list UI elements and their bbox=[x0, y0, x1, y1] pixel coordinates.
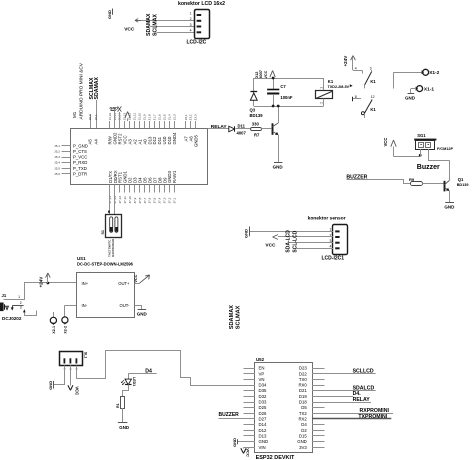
svg-text:J3,2: J3,2 bbox=[189, 114, 193, 120]
svg-text:SG1: SG1 bbox=[417, 133, 426, 138]
svg-text:4007: 4007 bbox=[237, 130, 247, 135]
net RXPROMINI wire + label (TX2) bbox=[312, 408, 393, 414]
pin A5 (top) bbox=[88, 114, 93, 145]
svg-text:D33: D33 bbox=[259, 400, 267, 405]
svg-text:BUZZER: BUZZER bbox=[219, 412, 240, 418]
power VCC arrow sensor pin2 bbox=[265, 235, 333, 249]
wire lower rail (coil to D12/C7/Q3) bbox=[254, 106, 324, 108]
svg-text:8: 8 bbox=[355, 95, 357, 99]
no-connect X mark above RST2 pin bbox=[118, 106, 122, 121]
ground at OUT- bbox=[135, 306, 148, 317]
svg-text:J1,6: J1,6 bbox=[158, 114, 162, 120]
svg-text:D32: D32 bbox=[259, 394, 267, 399]
mcu U52 ESP32 DEVKIT (body) bbox=[255, 357, 313, 460]
net SDALCD wire + rotated label bbox=[286, 230, 333, 253]
svg-text:GND: GND bbox=[444, 204, 455, 209]
svg-text:GND: GND bbox=[48, 381, 53, 390]
wire Arduino D0/RX to S1 bbox=[114, 193, 116, 215]
svg-text:A4: A4 bbox=[94, 139, 99, 145]
svg-text:12: 12 bbox=[371, 95, 375, 99]
svg-text:J7,13: J7,13 bbox=[113, 196, 117, 204]
svg-text:GND4: GND4 bbox=[172, 132, 177, 145]
svg-text:BD139: BD139 bbox=[457, 183, 469, 187]
junction node at Q3 collector bbox=[277, 105, 280, 108]
svg-text:LCD-I2C1: LCD-I2C1 bbox=[322, 256, 345, 262]
svg-text:D2: D2 bbox=[301, 428, 307, 433]
svg-text:DC-DC-STEP-DOWN-LM2596: DC-DC-STEP-DOWN-LM2596 bbox=[77, 261, 134, 266]
svg-text:J5,3: J5,3 bbox=[54, 155, 60, 159]
svg-text:TXD2-2M-5V: TXD2-2M-5V bbox=[328, 85, 350, 89]
terminal X2-1 bbox=[50, 312, 56, 334]
svg-text:D22: D22 bbox=[299, 371, 307, 376]
svg-text:GND: GND bbox=[405, 96, 416, 101]
svg-text:C7: C7 bbox=[280, 84, 286, 89]
svg-text:J1,10: J1,10 bbox=[138, 112, 142, 120]
buzzer SG1 F/CM12P bbox=[414, 133, 453, 160]
svg-text:K1: K1 bbox=[370, 107, 376, 112]
svg-text:Buzzer: Buzzer bbox=[417, 164, 440, 171]
wire pin2 VCC to LCD-I2C bbox=[141, 20, 194, 22]
net SCLLCD wire + rotated label bbox=[292, 230, 333, 252]
power VCC arrow at OUT+ bbox=[134, 274, 149, 283]
svg-text:1: 1 bbox=[319, 87, 323, 89]
diode D12 1N4007 (freewheel) bbox=[250, 70, 263, 106]
svg-text:2: 2 bbox=[20, 301, 22, 305]
net SDAMAX rotated label (A4 wire) bbox=[94, 76, 100, 121]
net BUZZER wire + label (to D27) bbox=[219, 412, 244, 419]
svg-text:VCC: VCC bbox=[383, 138, 388, 147]
svg-text:SDAMAX: SDAMAX bbox=[146, 13, 152, 36]
power VCC arrow (buzzer) bbox=[383, 138, 396, 157]
junction node buzzer pin1 bbox=[419, 154, 422, 157]
svg-text:D19: D19 bbox=[299, 394, 307, 399]
svg-text:GND: GND bbox=[107, 10, 112, 19]
wire jack pin1 to +24V rail bbox=[4, 283, 77, 300]
svg-text:D15: D15 bbox=[299, 433, 307, 438]
power VCC arrow (relay rail) bbox=[264, 70, 275, 78]
junction mark bbox=[108, 211, 110, 213]
power VCC arrow above VCC pin bbox=[125, 112, 130, 121]
svg-text:GND: GND bbox=[243, 229, 248, 238]
svg-text:D21: D21 bbox=[299, 388, 307, 393]
svg-text:J7,6: J7,6 bbox=[148, 197, 152, 203]
svg-text:VCC: VCC bbox=[265, 243, 276, 249]
svg-text:D12: D12 bbox=[259, 428, 267, 433]
ground below Q1 bbox=[444, 203, 455, 210]
net RELAY wire + label (D18) bbox=[312, 397, 371, 403]
regulator U51 DC-DC-STEP-DOWN-LM2596 bbox=[77, 256, 135, 318]
svg-text:J7,4: J7,4 bbox=[158, 197, 162, 203]
net D4 wire + label (D19) bbox=[312, 391, 361, 397]
power +24V arrow (contacts) bbox=[343, 55, 355, 71]
connector LCD-I2C1 (konektor sensor) bbox=[308, 216, 348, 262]
svg-text:ESP32 DEVKIT: ESP32 DEVKIT bbox=[256, 455, 295, 460]
svg-text:D27: D27 bbox=[259, 416, 267, 421]
svg-text:J5,4: J5,4 bbox=[54, 161, 60, 165]
resistor R7 330 bbox=[251, 121, 272, 137]
ESP32 right pin stubs bbox=[312, 369, 325, 448]
svg-text:A5: A5 bbox=[88, 139, 93, 145]
svg-text:LED1: LED1 bbox=[132, 377, 136, 386]
svg-text:konektor LCD 16x2: konektor LCD 16x2 bbox=[178, 1, 225, 7]
svg-text:Q1: Q1 bbox=[458, 177, 464, 182]
svg-text:SL1: SL1 bbox=[84, 352, 88, 359]
wire X2-2 to U51 IN- bbox=[65, 305, 77, 307]
svg-text:GND: GND bbox=[232, 438, 237, 447]
svg-text:D4: D4 bbox=[301, 422, 307, 427]
svg-text:J5,6: J5,6 bbox=[54, 172, 60, 176]
svg-text:OUT-: OUT- bbox=[119, 303, 130, 308]
svg-text:P_CTS: P_CTS bbox=[73, 149, 87, 154]
power VCC arrow down SL1 pin2 bbox=[68, 365, 80, 395]
svg-text:3V3: 3V3 bbox=[299, 445, 307, 450]
svg-text:VN: VN bbox=[259, 377, 265, 382]
switch S1 (tact switch) bbox=[101, 215, 122, 258]
net SDAMAX rotated label (floating) bbox=[229, 305, 235, 330]
svg-text:SDAMAX: SDAMAX bbox=[94, 76, 100, 99]
mcu M1 ARDUINO PRO MINI (body) bbox=[71, 62, 208, 184]
relay contact K1 (lower) bbox=[353, 95, 377, 118]
top pin row R/W..D10 bbox=[108, 112, 178, 144]
svg-text:GND: GND bbox=[259, 439, 269, 444]
svg-text:D18: D18 bbox=[299, 400, 307, 405]
svg-text:D5: D5 bbox=[301, 405, 307, 410]
wire LED cathode to R1 bbox=[123, 385, 129, 397]
svg-text:LCD-I2C: LCD-I2C bbox=[187, 40, 207, 46]
wire buzzer pin2 to Q1 collector bbox=[428, 160, 449, 162]
svg-text:J1: J1 bbox=[2, 293, 7, 298]
svg-text:DCJ0202: DCJ0202 bbox=[2, 316, 22, 321]
svg-text:+24V: +24V bbox=[343, 55, 348, 67]
svg-text:P_RXD: P_RXD bbox=[73, 160, 87, 165]
relay coil K1 TXD2-2M-5V bbox=[316, 79, 350, 104]
svg-text:3: 3 bbox=[370, 66, 372, 70]
svg-text:RADISONAR: RADISONAR bbox=[111, 238, 115, 257]
svg-text:J5,1: J5,1 bbox=[54, 144, 60, 148]
svg-text:J7,14: J7,14 bbox=[108, 196, 112, 204]
relay contact K1 (upper) bbox=[350, 66, 377, 88]
terminal X1-1 with ground bbox=[405, 86, 434, 101]
svg-text:SDAMAX: SDAMAX bbox=[229, 305, 235, 330]
net RELAY wire from M1 bbox=[208, 124, 229, 130]
net BUZZER wire + label bbox=[346, 175, 410, 184]
svg-text:S1: S1 bbox=[101, 230, 105, 234]
ground GND (rotated, top-left) bbox=[107, 9, 112, 20]
svg-text:R1: R1 bbox=[116, 403, 120, 408]
svg-text:U52: U52 bbox=[256, 357, 265, 362]
svg-text:J1,9: J1,9 bbox=[143, 114, 147, 120]
svg-text:3: 3 bbox=[20, 306, 22, 310]
ground GND (rotated) SL1 pin1 bbox=[48, 366, 65, 390]
net D4 wire + label bbox=[128, 369, 157, 380]
wire VCC to buzzer pin 1 bbox=[394, 156, 421, 158]
svg-text:J3,1: J3,1 bbox=[184, 114, 188, 120]
ground symbol above GND2 pin (inverted) bbox=[110, 107, 119, 121]
svg-text:K1: K1 bbox=[370, 79, 376, 84]
bottom pin row D1/TX..D9 bbox=[108, 170, 177, 203]
resistor R1 bbox=[116, 397, 124, 409]
svg-text:J7,8: J7,8 bbox=[138, 197, 142, 203]
ground below Q3 bbox=[273, 163, 284, 170]
svg-text:4007: 4007 bbox=[259, 70, 263, 78]
svg-text:GND: GND bbox=[273, 165, 284, 170]
svg-text:J7,10: J7,10 bbox=[128, 196, 132, 204]
svg-text:J2,1: J2,1 bbox=[94, 114, 98, 120]
svg-text:D25: D25 bbox=[259, 405, 267, 410]
svg-text:D14: D14 bbox=[259, 422, 267, 427]
svg-text:2: 2 bbox=[319, 102, 323, 104]
svg-text:TX2: TX2 bbox=[299, 411, 307, 416]
svg-text:X2-1: X2-1 bbox=[52, 326, 56, 334]
svg-text:D35: D35 bbox=[259, 388, 267, 393]
svg-text:J5,5: J5,5 bbox=[54, 166, 60, 170]
svg-text:P_GND: P_GND bbox=[73, 144, 88, 149]
svg-text:P_TXD: P_TXD bbox=[73, 166, 87, 171]
svg-text:EN: EN bbox=[259, 366, 265, 371]
connector SL1 (3-pin) bbox=[60, 352, 88, 370]
svg-text:VCC: VCC bbox=[134, 274, 138, 282]
net SCLMAX wire + rotated label bbox=[153, 14, 195, 36]
LED D4 LED1 bbox=[121, 377, 136, 386]
svg-text:J1,5: J1,5 bbox=[162, 114, 166, 120]
svg-text:SCLLCD: SCLLCD bbox=[353, 369, 374, 375]
capacitor C7 100nF bbox=[267, 78, 293, 106]
svg-text:F/CM12P: F/CM12P bbox=[437, 147, 454, 151]
svg-text:J5,2: J5,2 bbox=[54, 150, 60, 154]
svg-text:BD139: BD139 bbox=[250, 113, 264, 118]
svg-text:GND: GND bbox=[297, 439, 307, 444]
power VCC arrow down at ESP32 VIN pin bbox=[241, 447, 251, 457]
svg-text:D11: D11 bbox=[238, 123, 246, 128]
net SDALCD wire + label (D21) bbox=[312, 386, 376, 392]
ground below R1 bbox=[118, 408, 129, 430]
svg-text:VCC: VCC bbox=[245, 448, 250, 457]
top-right pins A7 A6 GND5 bbox=[184, 114, 199, 147]
svg-text:J1,4: J1,4 bbox=[167, 114, 171, 120]
svg-text:J1,16: J1,16 bbox=[108, 112, 112, 120]
junction node at C7 bottom bbox=[272, 105, 275, 108]
svg-text:VCC: VCC bbox=[124, 27, 135, 33]
svg-text:RAW1: RAW1 bbox=[172, 170, 177, 183]
net TXPROMINI wire + label (RX2) bbox=[312, 414, 391, 420]
svg-text:X2-2: X2-2 bbox=[64, 326, 68, 334]
connector LCD-I2C (4-pin header) bbox=[178, 1, 225, 45]
svg-text:J7,1: J7,1 bbox=[172, 197, 176, 203]
svg-text:K1: K1 bbox=[328, 79, 334, 84]
svg-text:J3,3: J3,3 bbox=[194, 114, 198, 120]
diode D11 1N4007 bbox=[229, 123, 250, 135]
svg-text:4: 4 bbox=[190, 29, 192, 33]
junction node at C7 top bbox=[272, 77, 275, 80]
svg-text:3: 3 bbox=[190, 23, 192, 27]
wire jack pin3 bracket bbox=[23, 310, 37, 316]
svg-text:RX0: RX0 bbox=[298, 383, 307, 388]
svg-text:IN+: IN+ bbox=[82, 281, 89, 286]
svg-text:RELAY: RELAY bbox=[353, 397, 371, 403]
svg-text:X1-1: X1-1 bbox=[424, 87, 434, 93]
svg-text:2: 2 bbox=[190, 17, 192, 21]
svg-text:J7,5: J7,5 bbox=[153, 197, 157, 203]
svg-text:OUT+: OUT+ bbox=[118, 281, 130, 286]
ground GND (rotated) at ESP32 GND pin bbox=[232, 438, 244, 447]
svg-text:D26: D26 bbox=[259, 411, 267, 416]
svg-text:SDA-LCD: SDA-LCD bbox=[286, 230, 292, 253]
svg-text:RX2: RX2 bbox=[298, 416, 307, 421]
pin A4 (top) bbox=[94, 114, 99, 144]
svg-text:P_DTR: P_DTR bbox=[73, 171, 87, 176]
svg-text:1: 1 bbox=[18, 295, 20, 299]
svg-text:GND: GND bbox=[119, 425, 129, 430]
net SCLMAX rotated label (A5 wire) bbox=[89, 77, 95, 99]
svg-text:1: 1 bbox=[190, 11, 192, 15]
svg-text:X1-2: X1-2 bbox=[429, 70, 439, 76]
svg-text:J1,3: J1,3 bbox=[172, 114, 176, 120]
svg-text:J7,2: J7,2 bbox=[168, 197, 172, 203]
left pins P_GND..P_DTR bbox=[54, 144, 88, 177]
svg-text:D23: D23 bbox=[299, 366, 307, 371]
power +24V flag on rail bbox=[39, 273, 51, 288]
net SDAMAX wire + rotated label bbox=[146, 13, 194, 36]
svg-text:M1: M1 bbox=[72, 111, 77, 118]
wire VCC rail to relay coil bbox=[254, 78, 324, 80]
svg-text:VP: VP bbox=[259, 371, 265, 376]
ground GND (rotated) sensor pin1 bbox=[243, 227, 333, 239]
svg-text:GND: GND bbox=[137, 311, 148, 316]
svg-text:330: 330 bbox=[252, 121, 260, 126]
svg-text:VCC: VCC bbox=[264, 70, 268, 78]
svg-text:J7,12: J7,12 bbox=[118, 196, 122, 204]
svg-text:GND5: GND5 bbox=[193, 134, 198, 147]
terminal X1-2 bbox=[393, 69, 439, 88]
connector J1 DCJ0202 (DC jack) bbox=[0, 293, 24, 321]
power VCC arrow (LCD harness) bbox=[124, 19, 141, 33]
svg-text:J1,8: J1,8 bbox=[148, 114, 152, 120]
svg-text:SCLMAX: SCLMAX bbox=[236, 305, 242, 329]
svg-text:IN-: IN- bbox=[82, 303, 88, 308]
transistor Q1 BD139 (NPN) bbox=[445, 160, 469, 202]
svg-text:4: 4 bbox=[355, 67, 357, 71]
terminal X2-2 bbox=[62, 305, 68, 333]
svg-text:D13: D13 bbox=[259, 433, 267, 438]
svg-text:+24V: +24V bbox=[39, 276, 44, 288]
svg-text:P_VCC: P_VCC bbox=[73, 155, 87, 160]
net SCLLCD wire + label (D22) bbox=[312, 369, 376, 375]
wire Arduino D1/TX to S1 bbox=[109, 193, 111, 215]
resistor R9 bbox=[409, 177, 444, 186]
svg-text:ARDUINO PRO MINI &CV: ARDUINO PRO MINI &CV bbox=[78, 62, 84, 119]
wire rail corner down to coil pin 1 bbox=[323, 78, 325, 91]
wire SL1 pin3 staircase to ESP32 D34 bbox=[77, 351, 255, 386]
svg-text:TX0: TX0 bbox=[299, 377, 307, 382]
svg-text:J7,3: J7,3 bbox=[163, 197, 167, 203]
svg-text:SCL-LCD: SCL-LCD bbox=[292, 230, 298, 252]
svg-text:US1: US1 bbox=[77, 256, 86, 261]
svg-text:RELAY: RELAY bbox=[211, 124, 228, 130]
svg-text:R7: R7 bbox=[254, 133, 260, 138]
ESP32 left pin stubs bbox=[244, 369, 256, 448]
wire coil pin2 down to lower rail bbox=[323, 99, 325, 107]
svg-text:TXPROMINI: TXPROMINI bbox=[358, 414, 387, 420]
net SCLMAX rotated label (floating) bbox=[236, 305, 242, 329]
svg-text:konektor sensor: konektor sensor bbox=[308, 216, 346, 222]
svg-text:VIN: VIN bbox=[259, 445, 266, 450]
svg-text:J2,2: J2,2 bbox=[88, 114, 92, 120]
svg-text:J1,11: J1,11 bbox=[133, 113, 137, 121]
svg-text:Q3: Q3 bbox=[250, 108, 256, 113]
svg-text:100nF: 100nF bbox=[280, 95, 293, 100]
svg-text:SCLMAX: SCLMAX bbox=[153, 14, 159, 36]
svg-text:VCC: VCC bbox=[74, 386, 79, 395]
svg-text:J7,11: J7,11 bbox=[123, 196, 127, 204]
svg-text:J7,7: J7,7 bbox=[143, 197, 147, 203]
svg-text:D34: D34 bbox=[259, 383, 267, 388]
svg-text:J7,9: J7,9 bbox=[133, 197, 137, 203]
transistor Q3 BD139 (NPN) bbox=[250, 106, 279, 163]
svg-text:J1,7: J1,7 bbox=[153, 114, 157, 120]
